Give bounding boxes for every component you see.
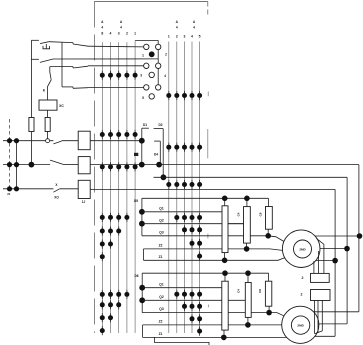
svg-text:D4: D4	[154, 153, 158, 157]
svg-text:2: 2	[126, 31, 128, 35]
svg-text:D6: D6	[134, 274, 138, 278]
svg-text:3: 3	[118, 31, 120, 35]
svg-text:1J: 1J	[82, 200, 86, 204]
svg-text:5: 5	[142, 96, 144, 100]
svg-text:8: 8	[101, 31, 103, 35]
svg-text:Q1: Q1	[159, 206, 164, 210]
svg-text:4: 4	[120, 25, 122, 29]
svg-text:1: 1	[168, 35, 170, 39]
svg-text:1: 1	[142, 54, 144, 58]
svg-text:2MD: 2MD	[299, 248, 306, 252]
svg-text:A: A	[193, 20, 196, 24]
svg-text:XC: XC	[59, 104, 64, 108]
svg-text:4: 4	[164, 74, 166, 78]
svg-text:2: 2	[165, 53, 167, 57]
svg-text:Q2: Q2	[159, 295, 164, 299]
svg-text:A: A	[176, 20, 179, 24]
svg-text:24: 24	[7, 192, 11, 196]
svg-text:4: 4	[110, 31, 112, 35]
svg-text:K: K	[43, 89, 46, 93]
svg-text:Q3: Q3	[159, 230, 164, 234]
svg-text:C4: C4	[237, 289, 241, 293]
svg-text:X: X	[55, 183, 58, 187]
svg-text:Z1: Z1	[159, 332, 163, 336]
svg-text:4: 4	[101, 25, 103, 29]
svg-text:4: 4	[191, 35, 193, 39]
svg-text:5: 5	[199, 35, 201, 39]
svg-text:2: 2	[176, 35, 178, 39]
svg-text:1: 1	[134, 31, 136, 35]
svg-text:Z1: Z1	[159, 255, 163, 259]
svg-text:3: 3	[184, 35, 186, 39]
svg-text:Q1: Q1	[159, 282, 164, 286]
svg-text:C8: C8	[258, 289, 262, 293]
svg-text:Q2: Q2	[159, 218, 164, 222]
svg-text:A: A	[120, 20, 123, 24]
svg-text:D2: D2	[158, 123, 162, 127]
svg-text:2: 2	[301, 293, 303, 297]
svg-text:D5: D5	[134, 199, 138, 203]
svg-text:3: 3	[140, 73, 142, 77]
svg-text:XO: XO	[54, 196, 59, 200]
svg-text:4: 4	[176, 25, 178, 29]
svg-text:A: A	[101, 20, 104, 24]
svg-text:Z2: Z2	[159, 320, 163, 324]
svg-text:Q3: Q3	[159, 307, 164, 311]
svg-text:2: 2	[302, 276, 304, 280]
svg-text:D1: D1	[143, 123, 147, 127]
svg-text:Z2: Z2	[159, 244, 163, 248]
svg-text:C4: C4	[237, 212, 241, 216]
svg-text:4: 4	[193, 25, 195, 29]
svg-text:C8: C8	[259, 212, 263, 216]
svg-text:2MD: 2MD	[297, 324, 304, 328]
